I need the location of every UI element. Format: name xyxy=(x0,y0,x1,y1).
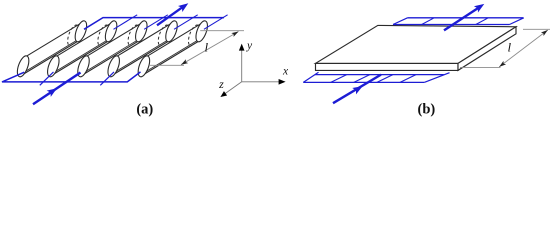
bottom strip right end xyxy=(424,73,449,83)
bottom strip hatch xyxy=(331,75,347,83)
slab top face xyxy=(316,25,517,63)
slab right end face xyxy=(458,27,516,71)
cylinder wire W5 xyxy=(136,19,210,78)
wire connection stub to W4 bottom xyxy=(100,72,114,85)
dimension arrowhead lower (a) xyxy=(181,59,188,64)
current arrowhead bottom-left (a) xyxy=(47,88,57,97)
bottom bus bar (a) with bends to wire W1 and W5 xyxy=(2,72,141,82)
svg-text:(b): (b) xyxy=(418,102,436,118)
bottom contact strip (b): top edge xyxy=(315,74,444,76)
svg-text:x: x xyxy=(282,66,289,78)
current lead-out line (b) xyxy=(444,7,480,30)
wire connection stub from W2 top xyxy=(114,15,138,29)
top bus bar (a) with bend to wire W1 xyxy=(84,18,224,30)
wire connection stub to W2 bottom xyxy=(40,72,54,85)
top contact strip (b): top edge xyxy=(408,17,524,19)
top strip hatch xyxy=(422,18,435,25)
current arrowhead bottom-left (b) xyxy=(352,86,362,94)
cylinder wire W4 xyxy=(106,19,180,78)
svg-text:z: z xyxy=(218,77,224,91)
wire connection stub from W3 top xyxy=(144,15,168,29)
x axis xyxy=(242,81,279,83)
dimension arrowhead upper (a) xyxy=(231,32,238,37)
cylinder wire W1 xyxy=(15,19,89,78)
dimension leader upper (a) xyxy=(200,30,244,32)
svg-text:(a): (a) xyxy=(136,102,153,118)
dimension leader lower (a) xyxy=(149,64,184,66)
top strip hatch xyxy=(476,18,489,25)
svg-text:l: l xyxy=(508,40,512,55)
top contact strip (b): bottom edge xyxy=(393,24,510,26)
dimension arrowhead upper (b) xyxy=(541,30,548,36)
current lead-in line (b) xyxy=(333,75,381,104)
bottom contact strip (b): bottom edge xyxy=(303,81,424,83)
z axis xyxy=(225,82,241,94)
cylinder wire W2 xyxy=(45,19,119,78)
svg-text:y: y xyxy=(246,40,253,52)
wire connection stub from W5 top xyxy=(204,15,228,29)
y axis xyxy=(241,50,243,82)
top strip right end xyxy=(510,18,524,25)
current arrowhead top-right (b) xyxy=(474,4,484,13)
dimension leader upper (b) xyxy=(523,28,550,30)
current lead-in line (a) xyxy=(33,73,81,105)
current lead-out line (a) xyxy=(157,7,183,26)
current arrowhead top-right (a) xyxy=(178,3,188,12)
dimension leader lower (b) xyxy=(460,66,501,68)
bottom strip left end xyxy=(303,72,318,82)
wire connection stub from W4 top xyxy=(174,15,198,29)
top strip left end xyxy=(393,18,408,25)
dimension arrowhead lower (b) xyxy=(499,61,506,67)
bottom strip hatch xyxy=(400,75,416,83)
bottom strip hatch xyxy=(354,75,370,83)
dimension line l (b) xyxy=(499,30,548,67)
slab front face xyxy=(316,63,459,70)
svg-text:l: l xyxy=(205,40,209,55)
cylinder wire W3 xyxy=(75,19,149,78)
bottom strip hatch xyxy=(377,75,393,83)
dimension line l (a) xyxy=(181,32,239,65)
